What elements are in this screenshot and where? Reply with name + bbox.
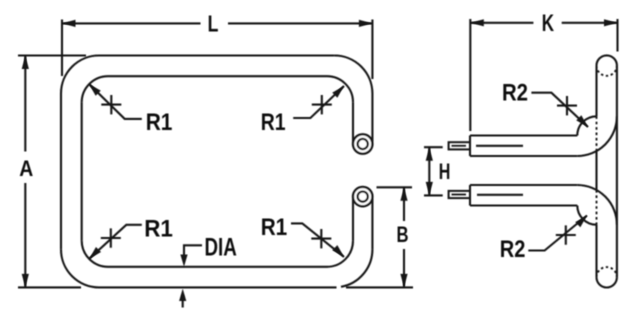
dimension K line right segment: [562, 22, 618, 24]
R1 bottom-right arrowhead: [332, 245, 344, 257]
tube bottom-left inner bend: [82, 241, 108, 267]
side view vertical tube left wall lower segment: [595, 225, 597, 278]
bottom lead upper wall: [470, 184, 577, 186]
dimension A line lower segment: [24, 183, 26, 287]
tube bottom-right outer bend: [341, 249, 372, 286]
bottom lead inner pin line: [477, 194, 523, 196]
side view vertical tube left wall middle segment: [595, 151, 597, 190]
R1 top-right leader: [293, 86, 344, 118]
tube top inner wall: [108, 75, 327, 77]
dimension H tick bottom: [424, 194, 443, 196]
svg-text:A: A: [19, 156, 33, 181]
R1 bottom-right leader: [291, 223, 344, 257]
side view tube bottom end cap: [597, 277, 617, 287]
top lead upper wall: [470, 134, 577, 136]
dimension K extension line right: [616, 19, 618, 52]
R1 top-right arrowhead: [332, 86, 344, 98]
side view vertical tube left wall hidden segment upper (dotted): [596, 116, 598, 151]
side view tube top end hidden arc (dotted): [597, 66, 617, 76]
R1 bottom-left center cross: [101, 228, 121, 247]
svg-text:R1: R1: [261, 109, 286, 136]
dimension H arrowhead top: [426, 147, 433, 161]
svg-text:L: L: [208, 11, 219, 37]
side view vertical tube left wall upper segment: [595, 66, 597, 117]
tube bottom inner wall: [108, 266, 327, 268]
svg-text:DIA: DIA: [205, 234, 237, 262]
dimension B line lower segment: [403, 249, 405, 287]
lower terminal end circle: [353, 187, 372, 206]
bottom lead end cap: [469, 185, 471, 206]
side view tube top end cap: [597, 55, 617, 65]
side view vertical tube left wall hidden segment lower (dotted): [596, 190, 598, 225]
bottom bend inner arc R2: [577, 206, 596, 225]
svg-text:K: K: [542, 10, 555, 37]
R1 bottom-left leader: [89, 225, 142, 259]
dimension L arrowhead left: [62, 20, 76, 27]
R2 bottom arrowhead: [575, 216, 587, 228]
R1 top-left arrowhead: [89, 84, 101, 96]
dimension H arrowhead bottom: [426, 182, 433, 196]
svg-text:R1: R1: [261, 214, 288, 241]
dimension A extension line top: [18, 54, 86, 56]
tube top-left inner bend: [82, 76, 108, 102]
tube left outer wall: [60, 94, 62, 250]
lower curl tube right wall: [371, 198, 373, 249]
dimension H tick top: [424, 146, 443, 148]
bottom terminal pin slot line: [452, 194, 467, 196]
dimension H line: [428, 147, 430, 195]
R2 top center cross: [557, 96, 577, 115]
top lead lower wall: [470, 155, 577, 157]
top terminal pin slot line: [452, 145, 467, 147]
dimension A extension line bottom: [18, 286, 81, 288]
dimension L extension line right: [371, 20, 373, 80]
dimension B arrowhead top: [400, 187, 407, 201]
R2 bottom center cross: [556, 225, 576, 244]
dimension B arrowhead bottom: [400, 274, 407, 288]
dimension B extension line top: [377, 186, 413, 188]
dimension K arrowhead right: [604, 19, 618, 26]
side view tube bottom end hidden arc (dotted): [597, 267, 617, 277]
DIA leader bracket: [184, 245, 202, 259]
tube bottom outer wall: [99, 286, 337, 288]
dimension B extension line bottom: [346, 286, 413, 288]
svg-text:R2: R2: [502, 79, 528, 106]
R1 top-left leader: [89, 84, 142, 119]
dimension L line right segment: [228, 22, 372, 24]
dimension A line upper segment: [24, 56, 26, 152]
svg-text:R1: R1: [144, 216, 173, 243]
tube top outer wall: [99, 54, 334, 56]
tube bottom-right inner bend: [327, 241, 353, 267]
bottom bend outer arc: [577, 185, 617, 225]
tube top-right inner bend: [327, 76, 353, 102]
upper terminal end circle: [353, 134, 372, 153]
dimension B line upper segment: [403, 187, 405, 221]
top bend inner arc R2: [577, 116, 596, 135]
DIA pointer arrow shaft bottom: [182, 295, 184, 308]
top bend outer arc: [577, 116, 617, 156]
R1 bottom-left arrowhead: [89, 247, 101, 259]
dimension K arrowhead left: [470, 19, 484, 26]
upper curl tube right wall: [371, 94, 373, 143]
svg-text:H: H: [439, 159, 451, 184]
top lead inner pin line: [476, 145, 523, 147]
dimension K extension line left: [469, 19, 471, 131]
R1 bottom-right center cross: [311, 229, 331, 248]
R2 bottom leader: [528, 216, 587, 251]
dimension L extension line left: [61, 20, 63, 77]
DIA arrowhead down: [180, 255, 187, 267]
upper curl tube left wall: [352, 102, 354, 142]
dimension K line left segment: [470, 22, 533, 24]
upper terminal pin circle: [358, 139, 368, 149]
bottom lead lower wall: [470, 204, 577, 206]
tube top-left outer bend: [61, 56, 99, 94]
R1 top-left center cross: [101, 95, 121, 114]
svg-text:R1: R1: [146, 109, 173, 136]
R2 top arrowhead: [576, 115, 588, 127]
bottom terminal pin rectangle: [449, 191, 470, 198]
tube bottom-left outer bend: [61, 249, 99, 287]
dimension A arrowhead bottom: [22, 274, 29, 288]
lower terminal pin circle: [358, 192, 368, 202]
svg-text:B: B: [397, 222, 409, 247]
DIA arrowhead up: [179, 289, 186, 301]
side view vertical tube right wall: [616, 66, 618, 278]
R2 top leader: [531, 93, 588, 127]
top lead end cap: [469, 136, 471, 157]
dimension A arrowhead top: [22, 56, 29, 70]
top terminal pin rectangle: [449, 142, 470, 149]
tube top-right outer bend: [334, 56, 372, 94]
dimension L line left segment: [62, 22, 201, 24]
dimension L arrowhead right: [359, 20, 373, 27]
svg-text:R2: R2: [500, 236, 526, 263]
R1 top-right center cross: [312, 95, 332, 114]
lower curl tube left wall: [352, 198, 354, 241]
tube left inner wall: [81, 102, 83, 240]
